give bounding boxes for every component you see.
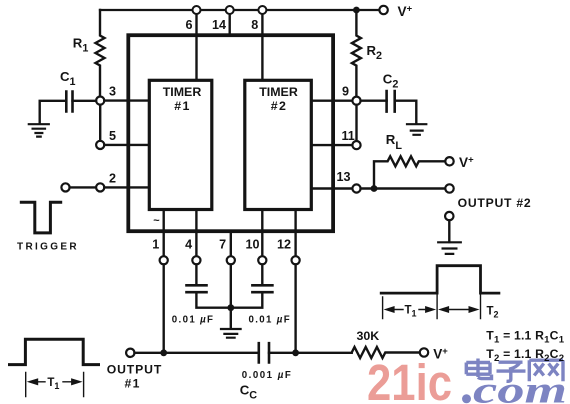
- wire pin 4 upper: [195, 210, 197, 257]
- junction pin1 bus: [160, 349, 167, 356]
- junction pin 7: [227, 304, 234, 311]
- svg-text:8: 8: [251, 18, 258, 32]
- svg-text:T1: T1: [47, 377, 59, 391]
- wire pin 14: [228, 14, 230, 36]
- resistor R2: [352, 10, 361, 97]
- svg-text:T1 = 1.1 R1C1: T1 = 1.1 R1C1: [486, 328, 564, 345]
- svg-text:#2: #2: [271, 99, 287, 113]
- capacitor CC: [259, 343, 269, 362]
- wire pin9-pin11: [355, 105, 357, 141]
- capacitor C1: [66, 92, 72, 112]
- trigger waveform: [21, 202, 60, 233]
- svg-text:#1: #1: [174, 99, 190, 113]
- wire pin 7 lower: [230, 264, 232, 328]
- capacitor 0.01uF A: [187, 285, 207, 292]
- wire C2 right: [395, 101, 417, 123]
- svg-text:TRIGGER: TRIGGER: [17, 241, 79, 252]
- wire cap A to junction: [196, 292, 230, 308]
- wire output1 bus right: [269, 352, 352, 354]
- wire pin 12 upper: [294, 210, 296, 257]
- ground G1: [29, 124, 49, 136]
- wire pin3-pin5: [99, 105, 101, 141]
- wire C2 left: [361, 99, 387, 101]
- svg-text:C2: C2: [383, 72, 399, 91]
- svg-text:~: ~: [153, 215, 160, 227]
- svg-text:TIMER: TIMER: [259, 85, 298, 99]
- terminal pin 12: [292, 256, 300, 264]
- terminal pin 4: [192, 256, 200, 264]
- svg-text:30K: 30K: [357, 329, 380, 343]
- wire V+ top bus: [100, 9, 379, 11]
- svg-text:0.001 µF: 0.001 µF: [242, 370, 292, 381]
- junction RL: [371, 185, 378, 192]
- wire pin 12 lower: [294, 264, 296, 352]
- dimension arrows T1 T2: [393, 309, 471, 311]
- svg-text:3: 3: [109, 85, 116, 99]
- svg-text:21ic: 21ic: [367, 354, 452, 404]
- wire pin 6: [195, 14, 197, 81]
- watermark dianziwang: [466, 359, 563, 382]
- terminal V+ top: [379, 6, 387, 14]
- wire pin 5: [104, 144, 149, 146]
- svg-text:C1: C1: [60, 69, 76, 88]
- wire pin 1 lower: [162, 264, 164, 352]
- wire pin 10 lower: [261, 264, 263, 283]
- timer U1b box: [245, 80, 311, 209]
- wire pin 3: [104, 99, 149, 101]
- svg-text:RL: RL: [386, 132, 403, 152]
- terminal pin 8: [258, 6, 266, 14]
- terminal pin 6: [193, 6, 201, 14]
- node pin 11: [352, 141, 360, 149]
- svg-text:OUTPUT: OUTPUT: [107, 362, 163, 376]
- terminal OUTPUT 1: [126, 349, 134, 357]
- terminal pin 14: [226, 6, 234, 14]
- wire pin 9: [311, 99, 352, 101]
- wire pin 1 upper: [162, 210, 164, 257]
- svg-text:9: 9: [342, 85, 349, 99]
- svg-text:4: 4: [185, 238, 192, 252]
- svg-text:T1: T1: [405, 305, 417, 319]
- wire pin 7 upper: [230, 231, 232, 256]
- svg-text:TIMER: TIMER: [163, 85, 202, 99]
- dimension bars output1: [26, 372, 84, 396]
- resistor RL: [374, 156, 445, 188]
- ground G3: [438, 242, 461, 254]
- wire pin 11: [311, 144, 352, 146]
- resistor R1: [96, 10, 105, 96]
- terminal trigger input: [61, 183, 69, 191]
- watermark 21ic: [367, 354, 452, 404]
- timer U1a box: [149, 80, 212, 209]
- svg-text:1: 1: [152, 238, 159, 252]
- node pin 3: [96, 97, 104, 105]
- IC outer box U1: [128, 35, 333, 231]
- waveform output2: [381, 266, 499, 293]
- terminal output2 ground: [445, 212, 453, 220]
- svg-text:5: 5: [109, 129, 116, 143]
- watermark .com: [462, 370, 567, 404]
- svg-text:R2: R2: [367, 43, 383, 62]
- ground G2: [407, 124, 426, 135]
- junction R2 top: [353, 7, 360, 14]
- dimension bars output2: [383, 295, 481, 319]
- svg-text:R1: R1: [73, 36, 89, 55]
- svg-text:#1: #1: [125, 376, 141, 390]
- svg-text:CC: CC: [240, 383, 258, 402]
- wire output2 ground: [448, 220, 450, 242]
- wire pin13 to output2: [361, 187, 446, 189]
- wire pin 10 upper: [261, 210, 263, 257]
- svg-text:OUTPUT #2: OUTPUT #2: [458, 196, 532, 210]
- terminal pin 10: [258, 256, 266, 264]
- node pin 9: [352, 97, 360, 105]
- resistor 30K: [352, 347, 420, 358]
- svg-text:11: 11: [342, 129, 355, 143]
- svg-text:V+: V+: [398, 4, 413, 20]
- wire cap B to junction: [231, 292, 262, 308]
- junction pin12 bus: [292, 349, 299, 356]
- terminal V+ 30K: [420, 348, 428, 356]
- wire pin 2: [104, 186, 149, 188]
- svg-text:13: 13: [337, 170, 351, 184]
- terminal OUTPUT 2: [445, 184, 453, 192]
- terminal V+ RL: [445, 157, 453, 165]
- dimension arrows T1 output1: [37, 381, 72, 383]
- svg-text:0.01 µF: 0.01 µF: [172, 315, 215, 326]
- capacitor C2: [387, 91, 395, 112]
- svg-text:V+: V+: [459, 154, 474, 170]
- node pin 2: [96, 183, 104, 191]
- wire C1 left: [40, 101, 67, 123]
- wire output1 bus left: [135, 352, 259, 354]
- ground G4: [221, 329, 241, 338]
- wire pin 8: [261, 14, 263, 81]
- svg-text:0.01 µF: 0.01 µF: [249, 315, 292, 326]
- svg-text:10: 10: [245, 238, 259, 252]
- svg-text:2: 2: [109, 171, 116, 185]
- node pin 13: [352, 184, 360, 192]
- terminal pin 1: [160, 256, 168, 264]
- waveform output1: [10, 339, 99, 364]
- svg-text:14: 14: [212, 18, 226, 32]
- svg-text:T2: T2: [487, 306, 499, 320]
- svg-text:6: 6: [185, 18, 192, 32]
- wire pin 13: [311, 187, 352, 189]
- svg-text:12: 12: [277, 238, 291, 252]
- wire trigger to pin 2: [70, 186, 97, 188]
- node pin 5: [96, 141, 104, 149]
- capacitor 0.01uF B: [252, 285, 272, 292]
- wire pin 4 lower: [195, 264, 197, 283]
- terminal pin 7: [227, 256, 235, 264]
- wire C1 right: [73, 100, 97, 102]
- svg-text:7: 7: [219, 238, 226, 252]
